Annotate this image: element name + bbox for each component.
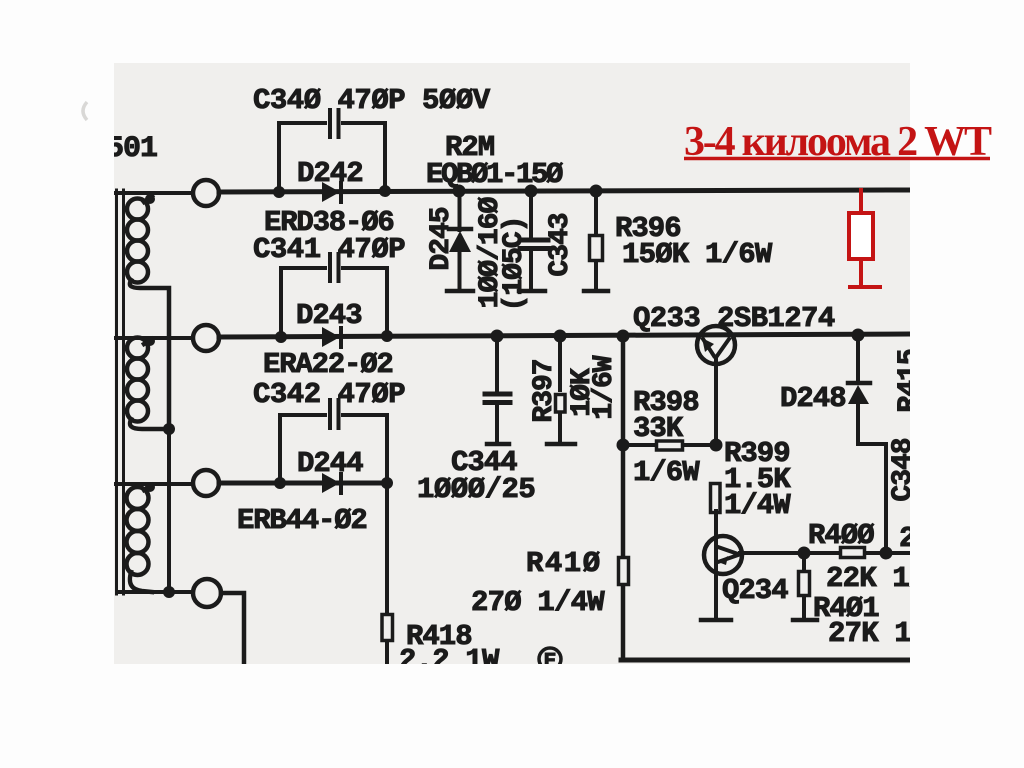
- diode D242: [322, 182, 341, 202]
- svg-text:1/4W: 1/4W: [724, 489, 791, 522]
- svg-text:C341 47ØP: C341 47ØP: [253, 233, 405, 266]
- node R400/R401: [798, 547, 811, 560]
- resistor R401: [793, 553, 817, 620]
- capacitor C342 plates: [330, 400, 339, 428]
- node rail3-C342 right: [381, 477, 393, 489]
- capacitor C342 loop: [280, 415, 387, 483]
- pin circle 3: [193, 470, 219, 496]
- node R398 right: [710, 439, 723, 452]
- svg-text:1ØØØ/25: 1ØØØ/25: [417, 473, 535, 506]
- pin circle 4: [193, 579, 221, 607]
- wire x623 down: [621, 336, 626, 660]
- node rail1-R396: [590, 185, 603, 198]
- transformer winding W1: [127, 196, 169, 429]
- wire core to pin1: [116, 191, 192, 195]
- svg-text:D244: D244: [297, 447, 363, 480]
- red underline: [684, 157, 990, 161]
- capacitor C344: [485, 336, 510, 444]
- svg-text:D242: D242: [297, 157, 363, 190]
- svg-text:15ØK 1/6W: 15ØK 1/6W: [622, 238, 773, 271]
- node right of R400: [880, 547, 893, 560]
- bottom rail: [621, 658, 909, 663]
- node rail1-D245: [453, 185, 466, 198]
- node rail1-C340 right: [379, 185, 391, 197]
- svg-text:R4ØØ: R4ØØ: [808, 519, 874, 552]
- rail 2 (middle output): [219, 334, 909, 337]
- svg-text:R397: R397: [529, 359, 560, 422]
- pin circle 1: [193, 180, 219, 206]
- node rail2-C341 right: [381, 330, 393, 342]
- svg-text:ERB44-Ø2: ERB44-Ø2: [237, 504, 367, 537]
- svg-text:R41Ø: R41Ø: [526, 547, 602, 580]
- wire vertical tap x169 to bottom: [167, 429, 171, 592]
- wire bottom to pin4: [118, 590, 192, 594]
- node R398 left: [617, 439, 630, 452]
- svg-text:D243: D243: [296, 299, 362, 332]
- node winding3 top: [145, 482, 155, 492]
- capacitor C340 loop: [279, 123, 385, 192]
- svg-text:Q233 2SB1274: Q233 2SB1274: [633, 302, 835, 335]
- capacitor C343: [519, 191, 548, 291]
- svg-text:1/6W: 1/6W: [633, 456, 700, 489]
- wire R398 row: [623, 443, 716, 447]
- node rail1-C340 left: [273, 186, 285, 198]
- rail 1 (top output): [219, 190, 909, 192]
- svg-text:27Ø 1/4W: 27Ø 1/4W: [471, 586, 605, 619]
- svg-text:(1Ø5C): (1Ø5C): [499, 217, 530, 312]
- node rail2 x623: [617, 330, 630, 343]
- svg-text:ERA22-Ø2: ERA22-Ø2: [263, 348, 393, 381]
- capacitor C340 plates: [330, 110, 339, 137]
- resistor R410: [619, 558, 629, 585]
- capacitor C341 plates: [330, 254, 339, 281]
- svg-text:C342 47ØP: C342 47ØP: [253, 378, 405, 411]
- node rail1-C343: [525, 185, 538, 198]
- node rail2-D248: [852, 329, 865, 342]
- svg-text:1/6W: 1/6W: [589, 355, 620, 419]
- capacitor C341 loop: [281, 268, 387, 337]
- transformer winding W2: [127, 338, 169, 430]
- svg-text:C34Ø 47ØP 5ØØV: C34Ø 47ØP 5ØØV: [253, 84, 491, 117]
- transformer T501 core: [117, 190, 124, 594]
- node rail2-R397: [554, 330, 567, 343]
- pin circle 2: [193, 325, 219, 351]
- node rail2-C344: [491, 330, 504, 343]
- resistor R396: [584, 191, 608, 291]
- node rail3-C342 left: [274, 477, 286, 489]
- resistor R398: [657, 441, 683, 450]
- resistor R399: [711, 484, 721, 513]
- resistor R397: [547, 336, 575, 444]
- wire core to pin3: [116, 482, 193, 486]
- wire rail3 right down to R418: [385, 483, 389, 665]
- wire core to pin2: [116, 336, 192, 340]
- node winding1 top: [145, 194, 155, 204]
- red annotation text: [684, 119, 992, 165]
- node winding2 bottom junction: [163, 423, 175, 435]
- transistor Q234: [701, 511, 742, 620]
- faint scan artifact: [83, 102, 87, 120]
- symbol circled E: [539, 648, 561, 674]
- node rail2-C341 left: [275, 331, 287, 343]
- svg-text:EQBØ1-15Ø: EQBØ1-15Ø: [426, 158, 563, 191]
- svg-text:C343: C343: [545, 213, 576, 276]
- resistor R418: [382, 615, 393, 641]
- diode D245: [447, 191, 473, 291]
- node winding2 top: [145, 336, 155, 346]
- wire Q234 to right edge: [740, 551, 909, 555]
- transistor Q233: [697, 326, 735, 445]
- svg-text:D245: D245: [426, 207, 457, 270]
- diode D248: [848, 335, 886, 554]
- transformer winding W3: [127, 485, 153, 592]
- red resistor annotation: [848, 188, 882, 287]
- diode D244: [322, 473, 341, 493]
- svg-text:Q234: Q234: [722, 574, 788, 607]
- diode D243: [322, 327, 341, 347]
- rail 3 (third output): [219, 481, 388, 486]
- resistor R400: [841, 548, 865, 558]
- svg-text:D248: D248: [780, 382, 846, 415]
- svg-text:33K: 33K: [633, 412, 684, 445]
- node bottom junction: [163, 586, 175, 598]
- wire pin4 down to edge: [221, 593, 244, 665]
